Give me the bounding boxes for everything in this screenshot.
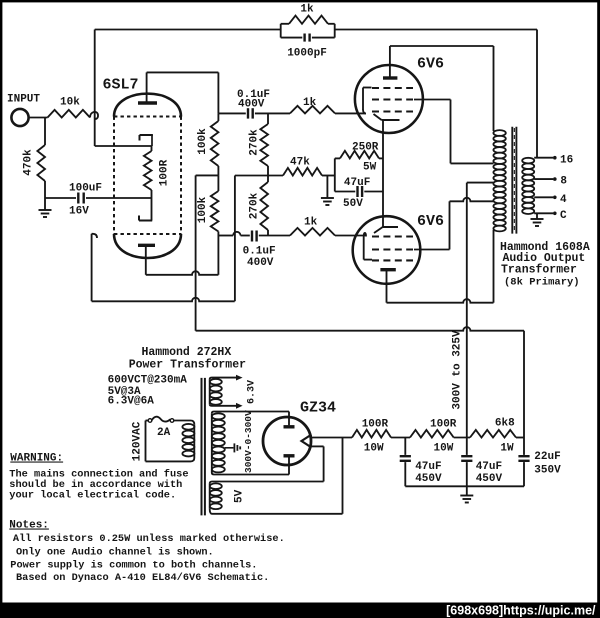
svg-text:Only one Audio channel is show: Only one Audio channel is shown. bbox=[16, 547, 214, 559]
svg-text:47uF: 47uF bbox=[415, 461, 441, 473]
svg-text:100k: 100k bbox=[197, 128, 209, 155]
svg-text:250R: 250R bbox=[352, 142, 379, 154]
svg-text:C: C bbox=[560, 210, 567, 222]
svg-text:10W: 10W bbox=[434, 443, 454, 455]
svg-text:WARNING:: WARNING: bbox=[10, 453, 63, 465]
svg-text:1k: 1k bbox=[304, 217, 318, 229]
svg-text:100R: 100R bbox=[362, 419, 389, 431]
svg-text:400V: 400V bbox=[247, 257, 274, 269]
svg-text:6.3V@6A: 6.3V@6A bbox=[108, 396, 155, 408]
svg-text:6.3V: 6.3V bbox=[247, 380, 258, 404]
svg-text:16V: 16V bbox=[69, 206, 89, 218]
svg-text:1k: 1k bbox=[303, 97, 317, 109]
svg-text:8: 8 bbox=[560, 176, 567, 188]
svg-text:50V: 50V bbox=[343, 198, 363, 210]
svg-text:16: 16 bbox=[560, 154, 573, 166]
svg-text:450V: 450V bbox=[415, 473, 442, 485]
svg-text:Transformer: Transformer bbox=[501, 264, 577, 277]
svg-text:300V to 325V: 300V to 325V bbox=[452, 330, 464, 410]
svg-text:100R: 100R bbox=[430, 419, 457, 431]
svg-text:470k: 470k bbox=[23, 149, 35, 176]
svg-text:1k: 1k bbox=[300, 4, 314, 16]
svg-text:INPUT: INPUT bbox=[7, 94, 40, 106]
svg-text:450V: 450V bbox=[476, 473, 503, 485]
svg-text:5V: 5V bbox=[234, 489, 246, 503]
svg-text:600VCT@230mA: 600VCT@230mA bbox=[108, 375, 188, 387]
svg-text:Power Transformer: Power Transformer bbox=[129, 359, 246, 372]
svg-text:10k: 10k bbox=[60, 97, 80, 109]
svg-text:300V-0-300V: 300V-0-300V bbox=[243, 410, 254, 473]
svg-text:350V: 350V bbox=[534, 465, 561, 477]
svg-text:1W: 1W bbox=[500, 443, 514, 455]
svg-text:Based on Dynaco A-410 EL84/6V6: Based on Dynaco A-410 EL84/6V6 Schematic… bbox=[16, 572, 269, 584]
svg-text:1000pF: 1000pF bbox=[287, 48, 327, 60]
svg-text:22uF: 22uF bbox=[534, 451, 560, 463]
svg-text:47uF: 47uF bbox=[344, 177, 370, 189]
svg-text:6V6: 6V6 bbox=[417, 213, 444, 230]
svg-text:4: 4 bbox=[560, 194, 567, 206]
svg-text:100R: 100R bbox=[159, 159, 171, 186]
svg-text:All resistors 0.25W unless mar: All resistors 0.25W unless marked otherw… bbox=[13, 533, 285, 545]
svg-text:400V: 400V bbox=[238, 99, 265, 111]
svg-text:0.1uF: 0.1uF bbox=[243, 246, 276, 258]
svg-text:100k: 100k bbox=[197, 196, 209, 223]
svg-text:47k: 47k bbox=[290, 157, 310, 169]
svg-text:Power supply is common to both: Power supply is common to both channels. bbox=[10, 560, 257, 572]
svg-text:6SL7: 6SL7 bbox=[103, 77, 139, 94]
svg-text:(8k Primary): (8k Primary) bbox=[504, 277, 580, 289]
svg-text:270k: 270k bbox=[249, 129, 261, 156]
svg-text:5W: 5W bbox=[363, 162, 377, 174]
svg-text:[698x698]https://upic.me/: [698x698]https://upic.me/ bbox=[446, 604, 596, 618]
svg-text:100uF: 100uF bbox=[69, 183, 102, 195]
svg-text:Notes:: Notes: bbox=[9, 520, 49, 532]
svg-text:270k: 270k bbox=[249, 192, 261, 219]
svg-text:Hammond 272HX: Hammond 272HX bbox=[142, 346, 232, 359]
svg-text:6k8: 6k8 bbox=[495, 418, 515, 430]
svg-text:47uF: 47uF bbox=[476, 461, 502, 473]
svg-text:your local electrical code.: your local electrical code. bbox=[9, 490, 176, 502]
svg-text:10W: 10W bbox=[364, 443, 384, 455]
svg-text:GZ34: GZ34 bbox=[300, 400, 336, 417]
svg-text:2A: 2A bbox=[157, 427, 171, 439]
svg-text:6V6: 6V6 bbox=[417, 56, 444, 73]
svg-text:120VAC: 120VAC bbox=[132, 421, 144, 461]
